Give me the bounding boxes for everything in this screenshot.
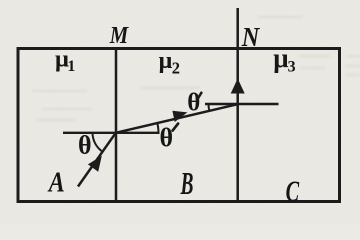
svg-text:A: A (47, 167, 65, 199)
angle arc theta-prime at M (157, 123, 158, 132)
angle arc theta at M (93, 133, 103, 152)
svg-text:C: C (286, 175, 300, 208)
arrowhead on emergent ray (upward) (231, 79, 245, 94)
svg-text:θ: θ (160, 123, 174, 152)
arrowhead on incident ray (88, 156, 102, 172)
normal at N (205, 103, 279, 105)
faint page bleed-through marks (decorative) (32, 17, 360, 120)
prime of theta-prime at M (173, 124, 179, 131)
svg-text:B: B (180, 165, 194, 201)
svg-text:M: M (109, 23, 130, 49)
normal at M (63, 132, 160, 134)
boundary line N / emergent ray line (236, 8, 239, 202)
angle arc theta-prime at N (208, 104, 211, 111)
boundary line M (115, 48, 118, 202)
svg-text:θ: θ (187, 90, 200, 117)
prime of theta-prime at N (198, 93, 202, 99)
refracted ray in B (116, 104, 238, 133)
svg-text:N: N (241, 22, 261, 52)
svg-text:θ: θ (78, 131, 92, 160)
arrowhead on refracted ray (172, 111, 187, 122)
outer box (three media container) (18, 49, 340, 202)
incident ray in A (78, 133, 116, 187)
